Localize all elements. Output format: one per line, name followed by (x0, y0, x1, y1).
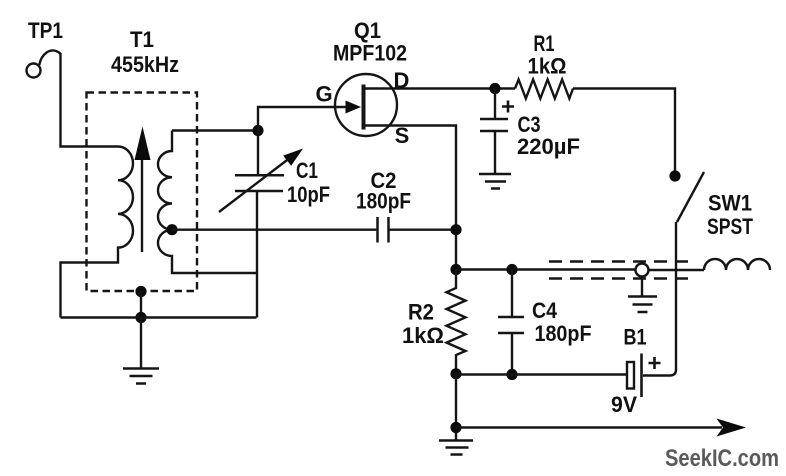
T1 primary winding (61, 147, 134, 318)
svg-text:B1: B1 (624, 325, 647, 350)
wire shield to bottom wire (140, 292, 142, 318)
svg-text:G: G (315, 82, 332, 107)
wire bottom to T1 ground (140, 318, 142, 369)
T1 secondary winding (158, 131, 257, 274)
wire bottom rail to battery (456, 373, 626, 375)
svg-text:R1: R1 (534, 31, 555, 56)
node A junction dot (secondary top / gate / C1) (252, 125, 263, 136)
svg-text:D: D (394, 68, 410, 93)
wire TP1 hook lead (39, 51, 60, 66)
svg-text:455kHz: 455kHz (111, 52, 179, 77)
capacitor C3 bottom plate (480, 130, 508, 133)
svg-text:MPF102: MPF102 (333, 41, 407, 66)
wire switch to battery positive (643, 222, 676, 376)
shielded cable lower dashes (549, 277, 694, 279)
node C junction dot (drain / R1 / C3) (489, 83, 500, 94)
wire node A down to C1 (257, 131, 259, 176)
ground C3 (479, 174, 511, 189)
svg-text:TP1: TP1 (28, 18, 63, 43)
wire C1 bottom down through tap line to bottom wire (256, 190, 258, 317)
svg-text:Q1: Q1 (354, 18, 381, 43)
capacitor C4 bottom plate (498, 332, 524, 335)
node E junction dot (C4 top) (506, 264, 517, 275)
svg-text:10pF: 10pF (287, 182, 330, 207)
capacitor C1 top plate (235, 174, 284, 177)
wire C4 bottom (511, 333, 513, 375)
node output junction dot (450, 422, 461, 433)
wire Q1 source lead (364, 126, 456, 271)
wire node D to cable circle (456, 268, 636, 270)
svg-text:S: S (395, 123, 410, 148)
T1 tuning core arrow shaft (141, 158, 143, 252)
svg-text:C1: C1 (296, 158, 318, 183)
C1 variable arrowhead (283, 149, 303, 166)
capacitor C4 top plate (498, 316, 524, 319)
svg-text:1kΩ: 1kΩ (528, 54, 567, 79)
svg-text:C4: C4 (532, 298, 558, 323)
node shield dot on dashed box bottom (135, 286, 146, 297)
capacitor C4 top lead (511, 270, 513, 317)
ground cable shield (628, 297, 657, 313)
capacitor C2 right plate (387, 217, 390, 243)
svg-text:T1: T1 (130, 27, 154, 52)
output arrowhead (717, 419, 747, 437)
node R2 bottom junction dot (450, 368, 461, 379)
wire output line (456, 426, 722, 428)
wire C2 to node B (390, 228, 457, 230)
gate arrowhead into Q1 (346, 101, 362, 114)
transformer T1 shield can (dashed box) (87, 93, 198, 292)
antenna coil L1 (704, 259, 770, 270)
resistor R1 zigzag (515, 80, 573, 99)
svg-text:9V: 9V (611, 392, 637, 417)
wire cable to coil (649, 269, 705, 271)
T1 tuning core arrowhead (135, 127, 151, 161)
node tap junction dot on secondary (166, 224, 177, 235)
capacitor C1 bottom plate (235, 190, 283, 193)
resistor R2 zigzag (447, 270, 466, 374)
switch SW1 blade (677, 172, 704, 222)
shielded cable upper dashes (549, 260, 694, 262)
wire R2 bottom to output node (455, 374, 457, 440)
svg-text:220µF: 220µF (517, 134, 580, 159)
capacitor C2 left plate (376, 217, 379, 243)
battery B1 positive plate (640, 354, 643, 398)
wire C3 to ground (494, 131, 496, 174)
svg-text:180pF: 180pF (356, 189, 411, 214)
wire TP1 down and to T1 primary top (61, 53, 119, 147)
svg-text:SPST: SPST (707, 214, 753, 239)
C3 plus sign (502, 101, 514, 113)
test point TP1 terminal (27, 64, 41, 78)
svg-text:180pF: 180pF (535, 321, 592, 346)
node D junction dot (source line / cable) (450, 264, 461, 275)
wire Q1 drain lead (364, 87, 515, 89)
wire bottom primary return (61, 316, 257, 318)
Q1 channel bar (362, 85, 366, 130)
node C4 bottom junction dot (506, 369, 517, 380)
svg-text:1kΩ: 1kΩ (402, 323, 444, 348)
node B junction dot (C2 / source line) (450, 224, 461, 235)
cable shield terminal circle (636, 264, 649, 277)
svg-text:SeekIC.com: SeekIC.com (665, 445, 779, 472)
wire node C to C3 (494, 89, 496, 119)
svg-text:SW1: SW1 (708, 191, 752, 216)
wire shield circle to ground (641, 277, 643, 296)
wire node A up to gate lead (258, 107, 347, 131)
B1 plus sign (649, 357, 661, 369)
battery B1 negative plate (627, 362, 634, 389)
ground T1 (123, 369, 159, 384)
op: transistor Q1 circle (335, 74, 397, 136)
svg-text:R2: R2 (408, 300, 434, 325)
wire R1 right to switch (573, 89, 675, 177)
ground output (439, 441, 473, 455)
wire tap to C2 (172, 228, 376, 230)
C1 variable arrow shaft (219, 153, 297, 213)
node junction dot on bottom wire (135, 312, 146, 323)
node switch top dot (669, 170, 680, 181)
wire T1 secondary top to node A (172, 129, 258, 131)
capacitor C3 top plate (480, 118, 508, 121)
